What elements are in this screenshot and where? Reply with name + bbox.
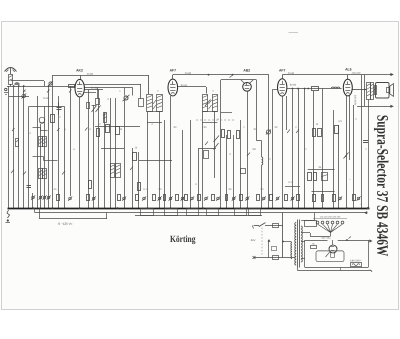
transformer T3 primary winding: [295, 223, 296, 265]
wire T3 lead a: [301, 220, 315, 222]
trimmer C-a on bus: [49, 82, 52, 85]
wire corner drop x149: [148, 76, 150, 95]
wire y81 antenna branch: [11, 80, 45, 82]
resistor Rb16: [176, 195, 179, 201]
resistor R14: [89, 181, 92, 189]
transformer T3 heater winding: [291, 243, 292, 259]
resistor R3: [97, 129, 100, 137]
resistor Rb14: [164, 195, 166, 201]
wire vertical x44.5: [44, 106, 46, 208]
wire can2 lower u: [202, 122, 217, 124]
capacitor C20 arrow: [268, 240, 270, 258]
wire vertical x298: [298, 89, 300, 209]
wire vertical x304.6: [304, 89, 306, 209]
switch contact Sb7: [92, 197, 95, 200]
wire selector common: [330, 233, 332, 237]
wire vertical x261.5: [261, 141, 263, 158]
switch contact Sb33: [291, 197, 294, 200]
svg-text:AF7: AF7: [170, 68, 177, 72]
resistor R21: [311, 246, 317, 249]
wire vertical x64.4: [64, 106, 66, 208]
switch contact Sb29: [262, 197, 265, 200]
mains plug symbol bottom left: [7, 210, 10, 218]
resistor Rb35: [313, 195, 316, 202]
tick x287: [287, 130, 290, 134]
wire V4 top stub: [282, 75, 284, 79]
svg-text:20-80: 20-80: [288, 72, 295, 75]
wire y96 left short: [9, 96, 29, 98]
junction dots chassis bus: [32, 207, 34, 209]
IF can T1 left coil: [147, 95, 153, 112]
wire vertical x58: [58, 96, 60, 208]
resistor R10: [318, 129, 322, 137]
resistor Rb36: [322, 195, 324, 202]
voltage selector contacts: [316, 221, 319, 224]
resistor R16: [116, 127, 120, 135]
switch contact Sb3: [47, 196, 50, 199]
switch contact Sb1: [39, 196, 42, 199]
wire connector y126: [95, 126, 140, 128]
wire V4 top line (y74.9): [282, 74, 342, 76]
wire vertical x247.2: [247, 92, 249, 208]
svg-text:50-80: 50-80: [181, 84, 188, 87]
switch contact Sb31: [276, 197, 279, 200]
svg-text:110 125 150 220 240: 110 125 150 220 240: [320, 215, 341, 218]
terminal arrow top right: [390, 73, 393, 76]
tube V2 AF7: [168, 79, 178, 96]
coil L10 pair upper: [39, 137, 43, 147]
wire V2 right drop: [206, 87, 208, 94]
box small x241: [241, 169, 246, 174]
trimmer C2: [22, 94, 26, 98]
voltage selector fan: [318, 224, 331, 232]
wire V2 top stub: [172, 75, 174, 79]
wire vertical x322.5: [322, 89, 324, 209]
tube V1 AK2: [75, 79, 84, 97]
wire V3 grid line (y79.8): [221, 79, 256, 81]
IF can T1 right coil: [157, 95, 163, 112]
wire speaker left vertical: [364, 75, 366, 107]
output transformer secondary: [375, 86, 377, 95]
wire connector y169 right: [308, 169, 335, 171]
wire AL5 top stub: [347, 75, 349, 80]
switch contact Sb19: [191, 197, 194, 200]
wire V4 right anode (y88.5): [287, 88, 341, 90]
svg-text:0,1: 0,1: [288, 181, 292, 184]
switch contact Sb21: [205, 197, 208, 200]
output transformer winding 2: [371, 83, 374, 100]
capacitor C8: [363, 140, 368, 142]
junction dot x283a: [282, 241, 284, 243]
wire connector y191 right: [312, 191, 335, 193]
trimmer C10: [124, 96, 128, 100]
wire vertical x170.5: [170, 96, 172, 208]
polarity ticks b: [23, 90, 26, 93]
coil L5: [116, 164, 121, 178]
wire top line to speaker: [342, 74, 391, 76]
resistor Rb12: [153, 195, 156, 201]
svg-text:Körting: Körting: [170, 235, 196, 245]
step wire mid-left: [33, 127, 41, 129]
wire vertical x241: [240, 120, 242, 208]
switch blade S1: [259, 223, 266, 227]
svg-text:2M: 2M: [252, 148, 255, 151]
wire AVC line (y75.5) left section: [52, 75, 149, 77]
antenna A1: [5, 68, 17, 72]
wire vertical x292.5: [292, 89, 294, 209]
mains cord: [298, 270, 369, 272]
fold mark top center: [289, 32, 299, 34]
terminal arrow bus right: [366, 206, 369, 209]
speaker cone: [390, 84, 394, 97]
IF can T2 arrows: [209, 100, 212, 104]
IF can T2 left coil: [203, 95, 208, 112]
resistor Rb34: [297, 195, 300, 201]
wire vertical x190: [190, 120, 192, 208]
switch contact Sb5: [69, 197, 72, 200]
switch arrow mid: [214, 143, 219, 150]
wire connector y148: [199, 148, 216, 150]
speaker magnet: [387, 88, 390, 93]
junction dots y88.5: [292, 88, 294, 90]
wire can1 lower u: [147, 122, 162, 124]
switch contact Sb17: [181, 197, 184, 200]
wire vertical x256.3: [256, 80, 258, 141]
svg-text:AK2: AK2: [76, 68, 83, 72]
switch contact Sb23: [217, 197, 220, 200]
wire heater lead y241.5: [283, 241, 291, 243]
wire AZ1 diagonal lead: [326, 252, 330, 257]
wire connector y106.4: [29, 106, 65, 108]
terminal arrow box right: [369, 239, 372, 242]
wire rail y212.5: [35, 212, 368, 214]
label switch box: [273, 224, 279, 228]
wire vertical x159.5: [159, 111, 161, 208]
resistor Rb24: [226, 195, 228, 201]
resistor R2: [51, 115, 55, 123]
wire transformer down lead: [368, 100, 370, 209]
wire vertical x52.5: [52, 76, 54, 209]
wire vertical x70: [70, 86, 72, 196]
wire vertical x110.5: [110, 98, 112, 208]
IF can T2 right coil: [213, 95, 218, 112]
wire T3 lead c: [301, 241, 305, 243]
junction dot speaker: [364, 89, 366, 91]
wire top bus left (y86): [7, 86, 75, 88]
output transformer winding 1: [367, 83, 371, 100]
switch contact Sb2: [43, 196, 46, 199]
speaker frame: [376, 83, 390, 99]
coil L12 small: [16, 139, 19, 147]
fuse F2 bottom: [351, 263, 362, 267]
ground terminal E: [5, 88, 7, 90]
svg-text:0,1: 0,1: [143, 188, 147, 191]
wire V4 grid stub: [273, 89, 278, 91]
wire vertical x139: [138, 152, 140, 208]
wire vertical x28.7: [28, 106, 30, 208]
wire vertical x88: [88, 90, 90, 209]
wire connector y161: [139, 160, 172, 162]
mains entry box: [305, 221, 317, 227]
switch contact Sb9: [123, 197, 126, 200]
switch contact Sb27: [246, 197, 249, 200]
wire vertical x13.7: [13, 86, 15, 208]
resistor R12: [308, 173, 312, 181]
coil L4: [111, 164, 115, 178]
wire x283 drop: [282, 213, 284, 258]
wire vertical x182.5: [182, 130, 184, 208]
wire jog x256-261: [256, 140, 261, 142]
plus terminal mark: [253, 256, 256, 259]
svg-text:220-240V: 220-240V: [353, 95, 356, 106]
wire IF2 bottom: [202, 111, 217, 113]
terminal arrow speaker bottom: [390, 105, 393, 108]
wire AL5 right (y89.5): [352, 89, 366, 91]
rectifier box bottom: [305, 267, 368, 269]
inner box power: [316, 251, 344, 262]
tube V3 AB2: [243, 83, 252, 92]
wire vertical x147.5: [147, 111, 149, 208]
wire IF1 bottom: [148, 111, 163, 113]
wire vertical x48.6: [48, 86, 50, 208]
wire V2 right (y87): [178, 86, 206, 88]
resistor R8: [138, 183, 141, 191]
capacitor C3: [57, 107, 62, 109]
voltage selector plate: [313, 218, 347, 220]
coil L11 pair lower: [39, 169, 43, 179]
resistor R15: [106, 125, 110, 133]
coil L6: [262, 157, 263, 165]
tube V5 AL5: [343, 79, 352, 96]
resistor R6: [237, 131, 240, 139]
resistor R7: [133, 153, 137, 161]
junction dots top bus: [13, 85, 15, 87]
wire T3 bottom lead: [297, 268, 299, 271]
wire vertical x361.5: [361, 75, 363, 208]
wire vertical x165: [164, 120, 166, 208]
wire heater top: [290, 242, 293, 243]
switch arrow S2: [344, 153, 349, 159]
resistor Rb20: [198, 195, 201, 201]
svg-text:-0 ~125 V=: -0 ~125 V=: [58, 222, 73, 226]
svg-text:0,8A 220V~: 0,8A 220V~: [350, 259, 363, 262]
varcap arrows C4: [92, 106, 97, 113]
switch contact Sb15: [169, 197, 172, 200]
capacitor C9: [27, 185, 32, 187]
resistor R1 on bus: [69, 85, 75, 88]
wire vertical x215: [214, 111, 216, 178]
switch contact Sb13: [158, 197, 161, 200]
wire vertical x221: [220, 80, 222, 208]
svg-text:10-80: 10-80: [43, 97, 50, 100]
switch contact Sb40: [357, 197, 360, 200]
wire vertical x132.5: [132, 148, 134, 208]
wire vertical x313.7: [313, 91, 315, 208]
rectifier box right: [368, 240, 370, 268]
svg-text:AF7: AF7: [279, 68, 286, 72]
rectifier box top right: [338, 240, 368, 242]
wire T3 lead b: [301, 232, 310, 234]
wire vertical x8: [8, 86, 10, 208]
resistor Rb4: [57, 195, 60, 201]
svg-text:DC+10a: DC+10a: [322, 237, 332, 240]
switch contact Sb38: [339, 197, 342, 200]
resistor R5: [228, 131, 231, 139]
coil L7: [322, 173, 328, 181]
junction dots on top line: [208, 74, 210, 76]
wire vertical x338.5: [338, 125, 340, 208]
transformer T3 core: [297, 220, 299, 268]
wire vertical x104.9: [104, 112, 106, 208]
wire vertical x33: [32, 193, 34, 208]
svg-text:Supra-Selector 37 SB 4346W: Supra-Selector 37 SB 4346W: [373, 115, 390, 257]
wire T3 lead d: [301, 258, 305, 260]
resistor Rb30: [270, 195, 273, 201]
antenna coil L1: [9, 75, 13, 85]
wire connector y112 mid: [221, 112, 232, 114]
coupling coil symbol: [15, 83, 20, 85]
switch contact Sb0: [32, 196, 35, 199]
resistor Rb22: [212, 195, 215, 201]
junction dot box top: [346, 239, 348, 241]
wire speaker bottom line: [357, 106, 391, 108]
label 10n box: [272, 247, 277, 251]
wire vertical x199: [198, 148, 200, 208]
terminal arrow rail right: [364, 211, 367, 214]
transformer T3 secondary winding: [301, 226, 302, 262]
wire vertical x333.7: [333, 110, 335, 208]
wire V1 aux (y93): [84, 92, 96, 94]
circle component x268: [266, 130, 270, 134]
wire vertical x349.6: [349, 96, 351, 160]
switch linkage dashed: [261, 228, 263, 256]
switch contact Sb25: [232, 197, 235, 200]
svg-text:AB2: AB2: [243, 68, 250, 72]
wire vertical x93.7: [93, 105, 95, 208]
resistor Rb32: [285, 195, 288, 201]
box component x141: [139, 99, 144, 107]
wire switch line y225.5: [254, 225, 259, 227]
wire vertical x268.9: [268, 75, 270, 208]
fuse F1: [273, 256, 279, 260]
wire vertical x286.5: [286, 96, 288, 130]
wire vertical x115.5: [115, 98, 117, 208]
varcap arrows C6: [205, 100, 211, 107]
box component x97: [96, 99, 100, 105]
wire V2 top line (y74.7): [173, 74, 269, 76]
IF can T1 arrows: [153, 100, 156, 104]
wire vertical x40.5: [40, 124, 42, 208]
wire vertical x37.4: [37, 96, 39, 208]
resistor Rb26: [240, 195, 243, 201]
svg-text:50-80: 50-80: [290, 84, 297, 87]
wire connector y148 left: [101, 148, 124, 150]
wire vertical x79.7: [79, 97, 81, 208]
wire V1 right anode (y89.5): [84, 89, 103, 91]
wire vertical x98.2: [98, 90, 100, 209]
wire lower lead y257.5: [254, 257, 296, 259]
wire V1 right g lower (y87.5): [84, 87, 132, 89]
chassis bus (thick): [8, 208, 370, 210]
svg-text:0,5: 0,5: [338, 120, 342, 123]
wire antenna to bus: [10, 84, 12, 86]
wire rail y215: [135, 215, 262, 217]
wire V1 right g upper (y84): [84, 84, 141, 86]
resistor R4: [222, 130, 225, 138]
cord plug: [368, 270, 372, 272]
wire V3 top diagonals: [241, 80, 245, 84]
wire vertical x226.5: [226, 135, 228, 208]
tuning gang dashed link: [196, 119, 236, 121]
wire vertical x203: [202, 111, 204, 208]
svg-text:220-240: 220-240: [352, 72, 361, 75]
wire vertical x282.2: [282, 96, 284, 208]
wire y219 branch: [40, 218, 108, 220]
wire vertical x353.7: [353, 105, 355, 208]
resistor R13: [314, 173, 317, 181]
resistor Rb8: [118, 195, 121, 201]
wire vertical x233.7: [233, 135, 235, 208]
polarity ticks: [11, 170, 14, 174]
wire vertical x124: [124, 100, 126, 208]
box component mid: [204, 151, 209, 159]
coil L9 on anode line: [331, 87, 339, 88]
resistor Rb39: [353, 195, 356, 201]
wire AZ1 legs: [330, 252, 332, 258]
wire vertical x272.6: [272, 89, 274, 208]
wire connector y186: [285, 186, 300, 188]
wire stub x35: [34, 208, 36, 213]
svg-text:50-80: 50-80: [91, 87, 98, 90]
resistor Rb28: [257, 195, 260, 201]
wire vertical x23.7: [23, 86, 25, 208]
tube V6 AZ1 rectifier: [329, 245, 337, 253]
resistor R9: [313, 129, 316, 137]
wire vertical x18.7: [18, 86, 20, 208]
resistor Rb10: [136, 195, 139, 201]
resistor Rb6: [87, 195, 90, 201]
switch contact Sb11: [143, 197, 146, 200]
rectifier box top left: [305, 240, 328, 242]
wire vertical x346.2: [346, 96, 348, 208]
svg-text:20-80: 20-80: [185, 72, 192, 75]
wire zigzag connector y157: [33, 156, 44, 158]
box row under bus: [141, 209, 154, 216]
tube V4 AF7b: [278, 79, 287, 96]
svg-text:20-80: 20-80: [87, 73, 94, 76]
rectifier box left: [304, 240, 306, 268]
tick x296: [296, 130, 299, 134]
wavetrap L2: [39, 117, 45, 123]
coil L3: [104, 113, 107, 123]
wire V1 top stub: [80, 76, 82, 80]
resistor Rb18: [185, 195, 188, 201]
capacitor C5: [87, 103, 90, 109]
svg-text:84V: 84V: [251, 239, 256, 242]
resistor R20 on anode line: [312, 87, 319, 91]
wire x315 stub: [314, 213, 316, 220]
resistor R11: [335, 126, 339, 134]
resistor Rb37: [333, 195, 336, 202]
